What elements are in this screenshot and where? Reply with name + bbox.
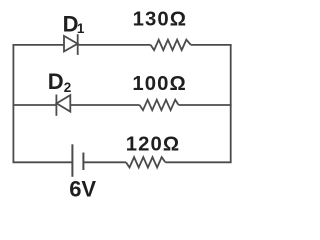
wire top-middle segment (78, 44, 151, 46)
wire middle-right segment (179, 104, 232, 106)
diode D1 (64, 34, 78, 55)
wire top-right segment (191, 44, 232, 46)
battery BT1 6V (72, 144, 83, 177)
resistor R2 100ohm (140, 100, 179, 110)
resistor R3 120ohm (126, 157, 165, 167)
svg-text:130Ω: 130Ω (133, 9, 188, 31)
wire bottom-center segment (83, 161, 126, 163)
resistor R1 130ohm (151, 40, 191, 50)
wire right rail (230, 45, 232, 162)
label D1 (63, 12, 85, 37)
wire middle-center segment (70, 104, 139, 106)
wire bottom-left segment (13, 161, 73, 163)
svg-text:1: 1 (77, 21, 85, 36)
label D2 (48, 69, 72, 95)
wire top-left segment (13, 44, 65, 46)
wire middle-left segment (13, 104, 57, 106)
svg-text:120Ω: 120Ω (126, 133, 181, 155)
diode D2 (56, 95, 70, 116)
svg-text:D: D (48, 69, 64, 94)
wire bottom-right segment (165, 161, 231, 163)
svg-text:100Ω: 100Ω (132, 73, 187, 95)
svg-text:6V: 6V (69, 177, 96, 202)
wire left rail (12, 45, 14, 162)
svg-text:2: 2 (64, 80, 72, 95)
